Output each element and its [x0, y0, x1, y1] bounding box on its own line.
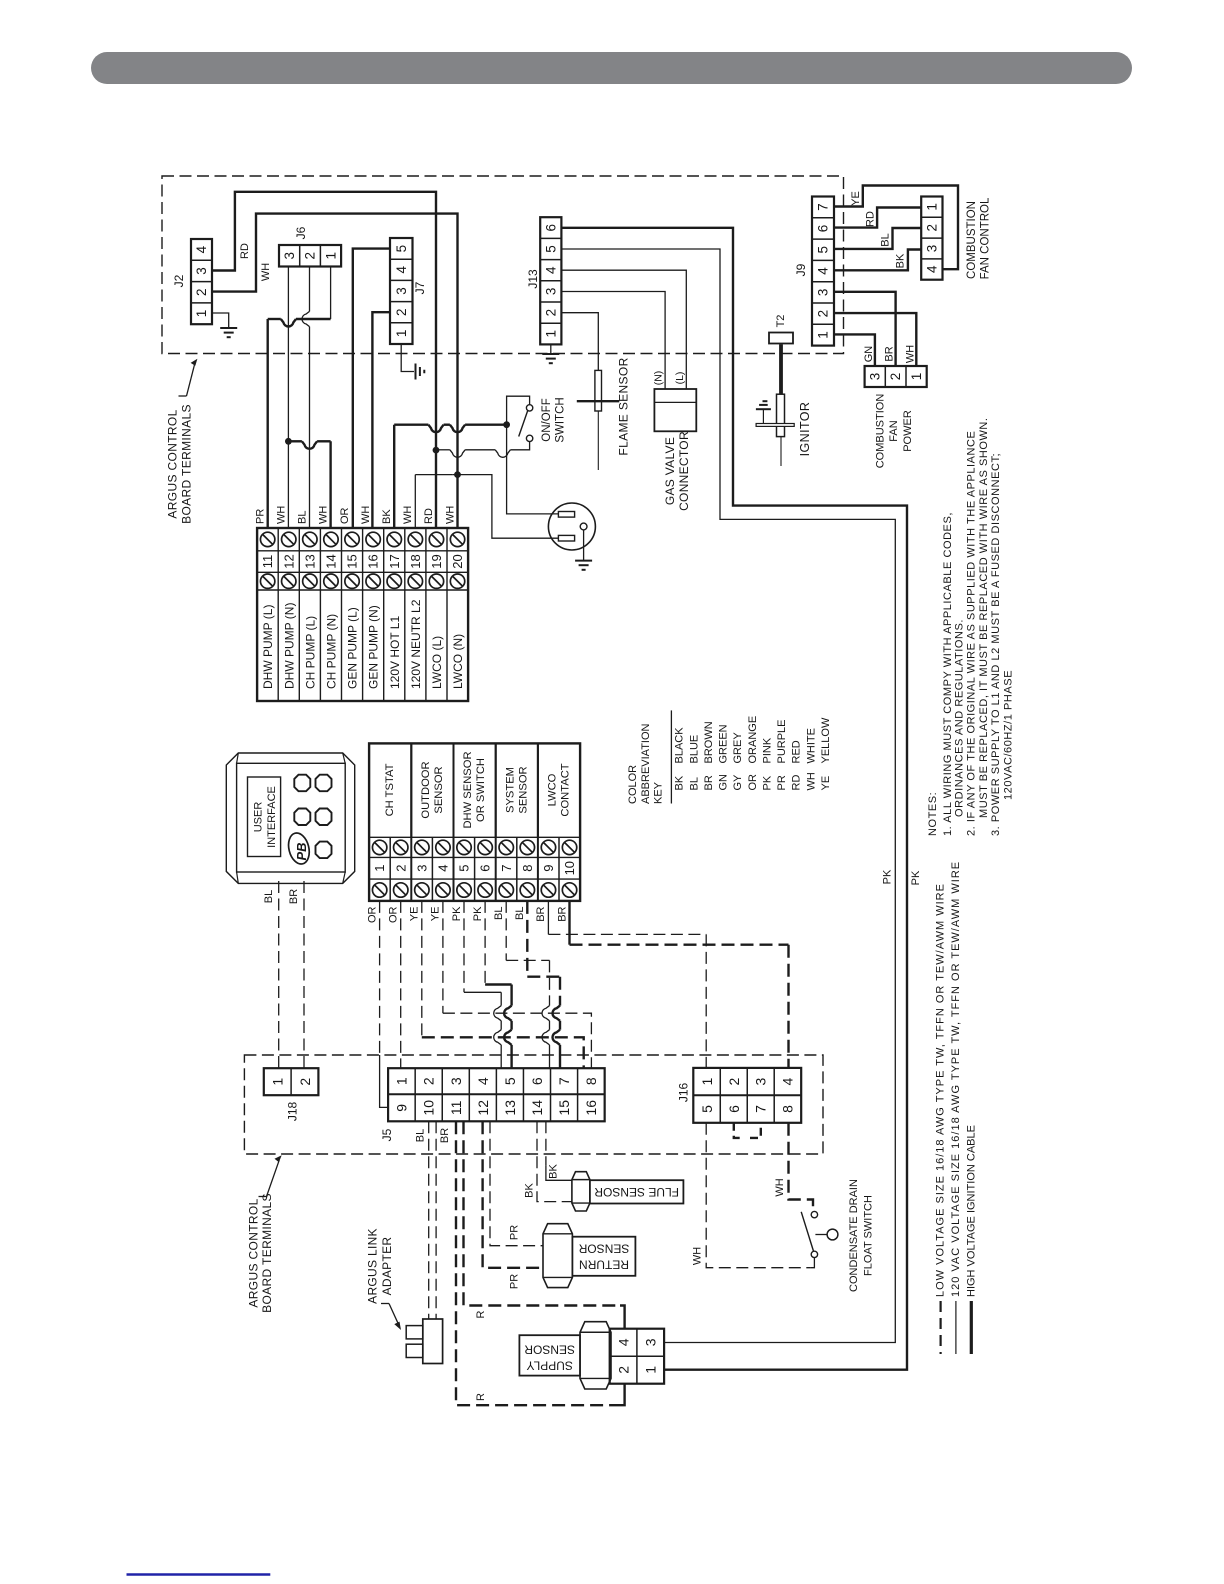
- connector J13: [540, 217, 561, 344]
- svg-text:WH: WH: [692, 1247, 704, 1265]
- wire switch bottom to RD junction: [510, 442, 529, 450]
- svg-text:BL: BL: [415, 1129, 427, 1142]
- svg-text:PK: PK: [451, 906, 463, 921]
- svg-text:YE: YE: [430, 907, 442, 922]
- svg-text:BROWN: BROWN: [703, 721, 715, 763]
- svg-text:YE: YE: [820, 776, 832, 791]
- user interface module: [226, 753, 354, 883]
- terminal strip 1-10: [369, 743, 580, 901]
- svg-text:5: 5: [457, 865, 472, 872]
- svg-text:FAN: FAN: [888, 420, 900, 441]
- svg-text:LOW VOLTAGE SIZE 16/18 AWG TYP: LOW VOLTAGE SIZE 16/18 AWG TYPE TW, TFFN…: [935, 883, 947, 1297]
- svg-text:12: 12: [281, 554, 296, 568]
- wire T10 (BR) to J16-4 and float switch: [568, 901, 570, 945]
- wire UI BL to J18-1: [278, 881, 280, 1068]
- svg-text:BK: BK: [524, 1183, 536, 1198]
- svg-text:BK: BK: [674, 775, 686, 790]
- svg-text:GY: GY: [732, 774, 744, 791]
- svg-text:LWCO: LWCO: [547, 773, 559, 806]
- svg-text:ORANGE: ORANGE: [747, 716, 759, 764]
- color key rule: [670, 710, 672, 803]
- combustion fan power connector: [865, 366, 927, 387]
- svg-text:1: 1: [909, 373, 924, 381]
- svg-text:15: 15: [345, 554, 360, 568]
- svg-text:2: 2: [421, 1077, 437, 1085]
- svg-text:BR: BR: [535, 906, 547, 921]
- svg-text:3: 3: [643, 1338, 659, 1346]
- svg-text:16: 16: [583, 1100, 599, 1116]
- svg-text:10: 10: [562, 861, 577, 875]
- svg-text:3: 3: [753, 1077, 769, 1085]
- wire PR thick to return sensor: [483, 1121, 543, 1268]
- wire J6-1 jumper to terminal 11 (PR): [330, 267, 332, 320]
- svg-text:14: 14: [323, 554, 338, 568]
- svg-text:5: 5: [543, 245, 558, 253]
- svg-text:BK: BK: [381, 509, 393, 524]
- svg-text:SYSTEM: SYSTEM: [504, 767, 516, 813]
- svg-text:2. IF ANY OF THE ORIGINAL WIRE: 2. IF ANY OF THE ORIGINAL WIRE AS SUPPLI…: [966, 431, 978, 836]
- svg-text:6: 6: [816, 225, 831, 233]
- wire J9-7 (YE) loop to fan control 4: [834, 186, 958, 270]
- svg-text:20: 20: [450, 554, 465, 568]
- svg-text:SENSOR: SENSOR: [524, 1343, 575, 1357]
- wire J5-10 (BL) to argus link adapter: [428, 1121, 430, 1319]
- svg-text:RD: RD: [423, 508, 435, 524]
- wire J2-3 to terminal 19 (RD): [212, 192, 436, 528]
- svg-text:INTERFACE: INTERFACE: [266, 786, 278, 848]
- svg-text:ARGUS LINK: ARGUS LINK: [365, 1228, 379, 1304]
- flame sensor: [595, 370, 602, 411]
- legend high voltage ignition cable: [970, 1301, 973, 1354]
- wire J9-1 (GN) to fan power 3: [834, 334, 875, 366]
- wire jumper J6-3 branch to terminal 14 (WH): [288, 440, 302, 442]
- supply sensor connector: [610, 1329, 664, 1384]
- svg-text:120V HOT L1: 120V HOT L1: [388, 616, 402, 689]
- svg-text:HIGH VOLTAGE IGNITION CABLE: HIGH VOLTAGE IGNITION CABLE: [965, 1125, 977, 1297]
- wire J9-5 (BL) to fan control 2: [834, 228, 921, 249]
- svg-text:2: 2: [924, 224, 939, 232]
- svg-text:2: 2: [393, 865, 408, 872]
- return sensor: [543, 1224, 572, 1288]
- svg-text:7: 7: [753, 1105, 769, 1113]
- svg-text:SENSOR: SENSOR: [433, 766, 445, 813]
- svg-text:OR SWITCH: OR SWITCH: [475, 758, 487, 822]
- svg-text:13: 13: [502, 1100, 518, 1116]
- flue sensor: [572, 1172, 590, 1211]
- svg-text:BL: BL: [880, 233, 892, 246]
- svg-text:BK: BK: [895, 253, 907, 268]
- svg-text:GREEN: GREEN: [718, 724, 730, 763]
- wire plug pin to ground: [583, 530, 585, 561]
- svg-text:RD: RD: [239, 243, 251, 259]
- svg-text:CONTACT: CONTACT: [560, 763, 572, 816]
- svg-text:J6: J6: [294, 226, 308, 239]
- svg-text:GN: GN: [718, 774, 730, 791]
- svg-text:12: 12: [475, 1100, 491, 1116]
- svg-text:LWCO (N): LWCO (N): [451, 634, 465, 689]
- svg-text:WH: WH: [318, 506, 330, 524]
- svg-text:PINK: PINK: [761, 737, 773, 763]
- svg-text:WH: WH: [260, 263, 272, 281]
- wire T8 (BL) to J5-7: [526, 901, 528, 977]
- wire UI BR to J18-2: [303, 881, 305, 1068]
- ground at plug: [575, 560, 592, 562]
- svg-text:PR: PR: [254, 509, 266, 524]
- wire J13-1 to ground: [550, 344, 552, 354]
- svg-text:PK: PK: [910, 870, 922, 885]
- wire J13-5 (PK thin) down right side: [561, 249, 895, 1343]
- wire J2-1 to ground: [212, 313, 229, 328]
- svg-text:1: 1: [924, 203, 939, 211]
- on/off switch: [507, 396, 530, 425]
- svg-text:16: 16: [366, 554, 381, 568]
- svg-text:J18: J18: [286, 1102, 300, 1122]
- svg-text:BR: BR: [439, 1128, 451, 1143]
- svg-text:BR: BR: [288, 889, 300, 904]
- svg-text:GAS VALVE: GAS VALVE: [663, 437, 677, 505]
- svg-text:7: 7: [556, 1077, 572, 1085]
- svg-text:10: 10: [421, 1100, 437, 1116]
- svg-text:5: 5: [699, 1105, 715, 1113]
- connector J18: [264, 1068, 319, 1095]
- svg-text:WH: WH: [444, 506, 456, 524]
- svg-text:6: 6: [529, 1077, 545, 1085]
- wire J5-11 (BR) to argus link adapter: [435, 1121, 437, 1319]
- svg-text:4: 4: [543, 266, 558, 274]
- junction at J6-3 wire: [285, 438, 292, 445]
- wire J13-4 to gas valve (L): [561, 270, 686, 389]
- wire J6-3 to terminal 12 (WH): [287, 267, 289, 529]
- svg-text:BL: BL: [514, 907, 526, 920]
- svg-text:2: 2: [726, 1077, 742, 1085]
- svg-text:11: 11: [448, 1100, 464, 1115]
- svg-text:4: 4: [615, 1338, 631, 1346]
- svg-text:BL: BL: [297, 511, 309, 524]
- junction on RD wire: [433, 447, 440, 454]
- svg-text:RD: RD: [865, 211, 877, 227]
- wire switch hot down to plug: [507, 425, 559, 514]
- svg-text:2: 2: [303, 252, 318, 260]
- svg-text:J13: J13: [526, 269, 540, 289]
- svg-text:GREY: GREY: [732, 732, 744, 764]
- wire T5 (PK) to J5-5: [463, 901, 465, 992]
- svg-text:WH: WH: [805, 772, 817, 790]
- svg-text:3: 3: [816, 289, 831, 297]
- svg-text:R: R: [475, 1310, 487, 1318]
- svg-text:1: 1: [394, 330, 409, 338]
- svg-text:6: 6: [543, 224, 558, 232]
- svg-text:OR: OR: [387, 906, 399, 923]
- svg-text:J7: J7: [413, 281, 427, 294]
- wire J2-2 to terminal 20 (WH): [212, 214, 458, 528]
- svg-text:5: 5: [394, 245, 409, 253]
- svg-text:WHITE: WHITE: [805, 728, 817, 763]
- svg-text:J2: J2: [172, 274, 186, 287]
- svg-text:YE: YE: [409, 907, 421, 922]
- svg-text:ORDINANCES AND REGULATIONS.: ORDINANCES AND REGULATIONS.: [953, 619, 965, 817]
- svg-text:DHW PUMP (L): DHW PUMP (L): [261, 605, 275, 689]
- wire J7-2 to terminal 16 (WH): [372, 312, 390, 528]
- leader arrow bottom: [259, 1196, 267, 1198]
- svg-text:BK: BK: [548, 1164, 560, 1179]
- dashed box ARGUS CONTROL BOARD (bottom): [244, 1055, 823, 1154]
- svg-text:RED: RED: [791, 740, 803, 763]
- P&B logo: [285, 831, 312, 866]
- svg-text:3: 3: [543, 288, 558, 296]
- svg-text:BR: BR: [556, 906, 568, 921]
- condensate drain float switch: [811, 1211, 817, 1217]
- svg-text:DHW PUMP (N): DHW PUMP (N): [282, 603, 296, 689]
- ignitor tail: [780, 437, 782, 466]
- svg-text:1: 1: [643, 1366, 659, 1374]
- flue sensor label box: [590, 1180, 684, 1203]
- wire T2 (OR) to J5-1: [400, 901, 402, 1068]
- wire J7-1 to ground: [401, 344, 414, 372]
- svg-text:NOTES:: NOTES:: [927, 792, 939, 836]
- svg-text:BR: BR: [703, 775, 715, 790]
- svg-text:8: 8: [780, 1105, 796, 1113]
- ground at ignitor: [762, 409, 764, 423]
- svg-text:9: 9: [394, 1104, 410, 1112]
- high voltage cable T2 to ignitor: [779, 344, 783, 394]
- svg-text:120V NEUTR L2: 120V NEUTR L2: [409, 599, 423, 689]
- svg-text:3: 3: [282, 252, 297, 260]
- gas valve connector: [654, 389, 696, 431]
- svg-text:1: 1: [816, 331, 831, 339]
- ground at J2-1: [220, 327, 237, 329]
- svg-text:3. POWER SUPPLY TO L1 AND L2 M: 3. POWER SUPPLY TO L1 AND L2 MUST BE A F…: [990, 453, 1002, 836]
- svg-text:2: 2: [888, 373, 903, 381]
- wire terminal 17 (BK) to switch: [393, 425, 395, 528]
- wire R loop lower to supply connector 2: [456, 1121, 620, 1405]
- wire R loop upper to supply connector 4: [464, 1121, 621, 1305]
- svg-text:8: 8: [520, 865, 535, 872]
- svg-text:4: 4: [475, 1077, 491, 1085]
- svg-text:120VAC/60HZ/1 PHASE: 120VAC/60HZ/1 PHASE: [1003, 670, 1015, 800]
- svg-text:MUST BE REPLACED, IT MUST BE R: MUST BE REPLACED, IT MUST BE REPLACED WI…: [978, 417, 990, 818]
- svg-text:2: 2: [615, 1366, 631, 1374]
- svg-text:BR: BR: [884, 346, 896, 361]
- svg-text:CONNECTOR: CONNECTOR: [677, 431, 691, 511]
- svg-text:COLOR: COLOR: [627, 765, 639, 804]
- svg-text:(L): (L): [674, 372, 686, 385]
- leader arrow top: [179, 395, 187, 397]
- svg-text:USER: USER: [253, 802, 265, 833]
- svg-text:7: 7: [816, 203, 831, 211]
- svg-text:3: 3: [414, 865, 429, 872]
- svg-text:1. ALL WIRING MUST COMPY WITH: 1. ALL WIRING MUST COMPY WITH APPLICABLE…: [942, 512, 954, 836]
- svg-text:17: 17: [387, 554, 402, 568]
- svg-text:GEN PUMP (L): GEN PUMP (L): [346, 607, 360, 689]
- return sensor label box: [572, 1237, 635, 1276]
- wire T9 (BR) to J16-1 and float switch: [547, 901, 549, 935]
- svg-text:SENSOR: SENSOR: [517, 766, 529, 813]
- svg-text:ADAPTER: ADAPTER: [380, 1237, 394, 1296]
- transformer T2: [769, 333, 793, 344]
- svg-text:2: 2: [816, 310, 831, 318]
- svg-text:J9: J9: [794, 263, 808, 276]
- svg-text:3: 3: [194, 267, 209, 275]
- svg-text:4: 4: [780, 1077, 796, 1085]
- svg-text:3: 3: [867, 373, 882, 381]
- wire J9-3 (BR) to fan power 2: [834, 292, 896, 366]
- user interface display: [248, 777, 281, 857]
- svg-text:ARGUS CONTROL: ARGUS CONTROL: [166, 409, 180, 518]
- svg-text:2: 2: [543, 309, 558, 317]
- wire terminal 18 (WH) to plug neutral: [414, 475, 416, 528]
- junction on WH wire: [454, 471, 461, 478]
- svg-text:(N): (N): [653, 371, 665, 386]
- 120V plug: [548, 503, 595, 550]
- connector J6: [279, 245, 341, 267]
- svg-text:1: 1: [699, 1077, 715, 1085]
- legend low voltage wire: [939, 1301, 941, 1354]
- svg-text:WH: WH: [402, 506, 414, 524]
- svg-text:BL: BL: [263, 890, 275, 903]
- supply sensor: [580, 1322, 611, 1389]
- terminal numbers 1-10: [372, 840, 386, 854]
- connector J5: [388, 1068, 605, 1121]
- connector J9: [812, 197, 834, 346]
- svg-text:18: 18: [408, 554, 423, 568]
- svg-text:IGNITOR: IGNITOR: [798, 402, 812, 457]
- svg-text:OR: OR: [747, 774, 759, 791]
- ignitor: [777, 394, 785, 436]
- svg-text:YELLOW: YELLOW: [820, 717, 832, 763]
- legend 120 VAC wire: [955, 1301, 957, 1354]
- svg-text:PR: PR: [509, 1274, 521, 1289]
- svg-text:GEN PUMP (N): GEN PUMP (N): [367, 605, 381, 689]
- svg-text:BL: BL: [688, 777, 700, 790]
- svg-text:SUPPLY: SUPPLY: [526, 1359, 572, 1373]
- svg-text:9: 9: [541, 865, 556, 872]
- svg-text:J16: J16: [677, 1083, 691, 1103]
- dashed box ARGUS CONTROL BOARD (top): [162, 176, 844, 354]
- svg-text:YE: YE: [850, 191, 862, 206]
- terminal strip 11-20: [257, 528, 468, 701]
- svg-text:CH TSTAT: CH TSTAT: [384, 763, 396, 816]
- svg-text:OUTDOOR: OUTDOOR: [420, 761, 432, 818]
- svg-text:DHW SENSOR: DHW SENSOR: [462, 751, 474, 828]
- svg-text:1: 1: [323, 252, 338, 260]
- argus link adapter: [423, 1319, 443, 1364]
- connector J16: [693, 1068, 801, 1123]
- svg-text:4: 4: [194, 245, 209, 253]
- svg-text:1: 1: [194, 310, 209, 318]
- svg-text:4: 4: [816, 267, 831, 275]
- svg-text:T2: T2: [775, 315, 787, 328]
- leader to argus link adapter: [381, 1303, 389, 1305]
- svg-text:ON/OFF: ON/OFF: [541, 398, 553, 441]
- svg-text:19: 19: [429, 554, 444, 568]
- svg-text:SENSOR: SENSOR: [578, 1242, 629, 1256]
- svg-text:PURPLE: PURPLE: [776, 719, 788, 763]
- svg-text:WH: WH: [275, 506, 287, 524]
- svg-text:120 VAC VOLTAGE SIZE 16/18 AWG: 120 VAC VOLTAGE SIZE 16/18 AWG TYPE TW, …: [950, 861, 962, 1297]
- svg-text:BLUE: BLUE: [688, 735, 700, 764]
- svg-text:ARGUS CONTROL: ARGUS CONTROL: [247, 1198, 261, 1307]
- svg-text:POWER: POWER: [902, 410, 914, 452]
- svg-text:CH PUMP (N): CH PUMP (N): [324, 614, 338, 689]
- user interface buttons: [294, 775, 310, 792]
- wire J7-5 to terminal 15 (OR): [353, 249, 390, 528]
- svg-text:1: 1: [543, 330, 558, 338]
- wire T6 (PK) to J5-5: [484, 901, 486, 985]
- wire BK upper to flue sensor: [545, 1121, 547, 1165]
- svg-text:WH: WH: [904, 345, 916, 363]
- svg-text:5: 5: [816, 246, 831, 254]
- wire J9-2 (WH) to fan power 1: [834, 313, 916, 366]
- svg-text:FLOAT SWITCH: FLOAT SWITCH: [863, 1195, 875, 1276]
- svg-text:4: 4: [394, 266, 409, 274]
- svg-text:FLAME SENSOR: FLAME SENSOR: [617, 357, 631, 455]
- wire J13-6 (PK thick) down right side: [561, 228, 907, 1370]
- svg-text:2: 2: [194, 288, 209, 296]
- supply sensor label box: [519, 1335, 580, 1375]
- svg-text:WH: WH: [360, 506, 372, 524]
- ground at J13-1: [542, 353, 559, 355]
- svg-text:OR: OR: [366, 906, 378, 923]
- combustion fan control connector: [921, 197, 942, 280]
- svg-text:6: 6: [478, 865, 493, 872]
- svg-text:8: 8: [583, 1077, 599, 1085]
- wire J9-4 (BK) to fan control 3: [834, 250, 921, 271]
- svg-text:FLUE SENSOR: FLUE SENSOR: [594, 1185, 679, 1199]
- svg-text:ABBREVIATION: ABBREVIATION: [640, 723, 652, 804]
- wire J13-2 to flame sensor: [561, 313, 598, 371]
- svg-text:6: 6: [726, 1105, 742, 1113]
- svg-text:14: 14: [529, 1100, 545, 1116]
- wire PR thin to return sensor: [490, 1121, 543, 1245]
- svg-text:2: 2: [297, 1078, 313, 1086]
- svg-text:7: 7: [499, 865, 514, 872]
- svg-text:BOARD TERMINALS: BOARD TERMINALS: [260, 1193, 274, 1313]
- svg-text:LWCO (L): LWCO (L): [430, 636, 444, 689]
- junction switch feed: [503, 421, 510, 428]
- svg-text:COMBUSTION: COMBUSTION: [875, 394, 887, 469]
- ground at J7-1: [415, 364, 417, 380]
- svg-text:WH: WH: [774, 1178, 786, 1196]
- wire J9-6 (RD) to fan control 1: [834, 208, 921, 228]
- svg-text:1: 1: [269, 1078, 285, 1086]
- svg-text:RD: RD: [791, 775, 803, 791]
- svg-text:PK: PK: [882, 869, 894, 884]
- svg-text:5: 5: [502, 1077, 518, 1085]
- svg-text:15: 15: [556, 1100, 572, 1116]
- svg-text:3: 3: [924, 245, 939, 253]
- svg-text:11: 11: [260, 555, 275, 569]
- svg-text:GN: GN: [863, 346, 875, 363]
- wire J6-2 to terminal 13 (BL): [309, 267, 311, 312]
- svg-text:COMBUSTION: COMBUSTION: [966, 201, 978, 279]
- svg-text:CONDENSATE DRAIN: CONDENSATE DRAIN: [848, 1179, 860, 1292]
- connector J7: [390, 238, 413, 344]
- svg-text:1: 1: [394, 1077, 410, 1085]
- connector J2: [191, 239, 212, 324]
- svg-text:PK: PK: [472, 906, 484, 921]
- svg-text:J5: J5: [380, 1128, 394, 1141]
- svg-text:3: 3: [448, 1077, 464, 1085]
- svg-text:PR: PR: [509, 1225, 521, 1240]
- svg-text:BOARD TERMINALS: BOARD TERMINALS: [179, 404, 193, 524]
- svg-text:2: 2: [394, 308, 409, 316]
- svg-text:OR: OR: [339, 507, 351, 524]
- svg-text:R: R: [475, 1393, 487, 1401]
- svg-text:PR: PR: [776, 775, 788, 790]
- svg-text:4: 4: [435, 865, 450, 872]
- svg-text:RETURN: RETURN: [579, 1258, 629, 1272]
- svg-text:1: 1: [372, 865, 387, 872]
